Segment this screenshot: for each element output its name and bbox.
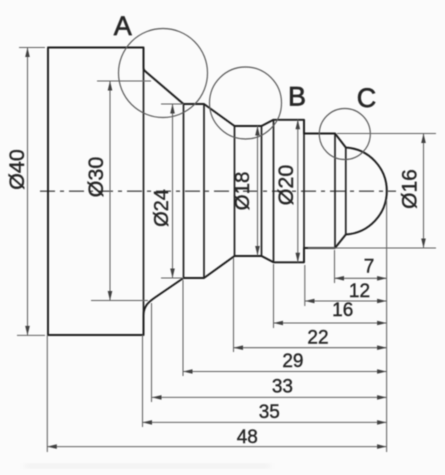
extension line taper start (33) (151, 303, 153, 402)
dimension Ø40 (17, 48, 45, 336)
dimension Ø18 (257, 126, 259, 256)
dimension 35 (143, 421, 387, 423)
centerline (part axis) (40, 190, 396, 192)
svg-text:Ø30: Ø30 (84, 157, 108, 198)
transition line flange face (143, 48, 145, 336)
dimension 33 (152, 396, 387, 398)
dimension 7 (335, 277, 387, 279)
svg-text:Ø40: Ø40 (5, 149, 29, 190)
dimension 29 (183, 371, 387, 373)
label A (114, 11, 132, 41)
svg-text:33: 33 (272, 377, 293, 398)
transition line Ø18 left (234, 126, 236, 256)
transition line sphere tangent (345, 148, 347, 235)
svg-text:48: 48 (237, 427, 258, 448)
dimension 48 (47, 446, 386, 448)
svg-text:Ø20: Ø20 (274, 165, 298, 206)
transition line Ø20 right (303, 120, 305, 262)
svg-text:Ø24: Ø24 (151, 189, 173, 227)
extension line Ø20 left (16) (273, 264, 275, 328)
svg-text:Ø18: Ø18 (231, 172, 254, 211)
dimension 16 (274, 322, 387, 324)
svg-text:B: B (288, 82, 306, 112)
svg-text:29: 29 (282, 351, 303, 372)
svg-text:12: 12 (349, 281, 370, 302)
detail circle C (319, 109, 370, 160)
svg-text:16: 16 (332, 300, 353, 321)
transition line Ø20 left (273, 120, 275, 262)
dimension 22 (234, 347, 387, 349)
extension line sphere start (7) (334, 250, 336, 283)
transition line Ø18 right (261, 126, 263, 256)
svg-text:7: 7 (364, 257, 375, 278)
svg-text:C: C (357, 83, 377, 113)
transition line Ø24 right (203, 104, 205, 278)
dimension Ø30 (91, 81, 151, 301)
svg-text:35: 35 (259, 402, 280, 423)
svg-text:22: 22 (307, 328, 328, 349)
detail circle B (210, 67, 282, 139)
transition line Ø24 left (183, 104, 185, 278)
label C (357, 83, 377, 113)
extension line left end (48) (46, 335, 48, 452)
scan smudge bottom (25, 464, 270, 468)
extension line right end (386, 200, 388, 452)
part outline (48, 48, 387, 336)
svg-text:A: A (114, 11, 132, 41)
extension line Ø20 right (12) (304, 265, 306, 306)
dimension 12 (305, 300, 387, 302)
extension line Ø24 left (29) (182, 280, 184, 376)
extension line Ø18 left (22) (233, 258, 235, 352)
dimension Ø16 (308, 134, 436, 249)
dimension Ø20 (297, 120, 299, 262)
svg-text:Ø16: Ø16 (399, 169, 422, 209)
detail circle A (119, 29, 208, 118)
label B (288, 82, 306, 112)
extension line flange face (35) (142, 335, 144, 427)
transition line sphere start (334, 134, 336, 249)
dimension Ø24 (161, 104, 184, 278)
